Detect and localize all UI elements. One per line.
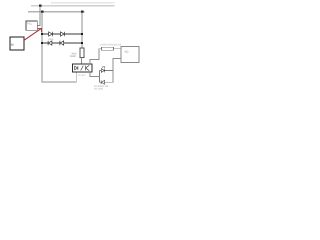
node row2 left (41, 42, 43, 44)
resistor R2 horizontal (102, 47, 114, 50)
box BQ right (121, 47, 139, 63)
LED pair loop wires (100, 71, 113, 83)
wire vertical bus x82 from rail L1 down to R1 (81, 12, 83, 48)
diode D1 row1 (49, 32, 53, 36)
node row1 right (81, 33, 83, 35)
node row2 right (81, 42, 83, 44)
wire opto top-right pin staircase to R2 (90, 49, 102, 64)
wire rail L3 top (51, 2, 115, 3)
wire rail L2 (31, 5, 115, 7)
connector BU box (10, 37, 24, 50)
diode D4 row2 points left (60, 41, 64, 45)
svg-text:PCL: PCL (27, 23, 33, 26)
node on rail L1 at x42 (41, 11, 44, 14)
wire opto bottom-right pin to LED pair (90, 72, 100, 77)
diode D2 row1 (61, 32, 65, 36)
LED HL1 points right with arrows (101, 66, 105, 72)
wire R1 bottom to opto (81, 58, 83, 64)
wire vertical from L2 node to filter (37, 6, 40, 25)
svg-text:D5M: D5M (48, 38, 53, 41)
wire box left-bottom to LED pair right (113, 59, 121, 83)
svg-text:BQ: BQ (125, 51, 129, 54)
svg-text:1 W5R OTNOWN D5: 1 W5R OTNOWN D5 (100, 43, 122, 46)
diode D6 points left (101, 80, 104, 84)
red annotation arrow (24, 28, 42, 40)
wire vertical bus x42 from rail L1 down and along bottom (42, 12, 76, 82)
opto LED symbol (75, 65, 90, 70)
wire diode row 2 (42, 42, 82, 44)
diode D3 row2 points left (48, 41, 52, 45)
svg-text:D1 4148: D1 4148 (94, 87, 103, 90)
resistor R1 vertical (80, 48, 84, 58)
svg-text:BU: BU (11, 44, 15, 47)
svg-text:PC 817: PC 817 (78, 74, 86, 77)
svg-text:300R1: 300R1 (70, 55, 77, 58)
node on rail L1 at x82 (81, 11, 83, 13)
node row1 left (41, 33, 43, 35)
wire R2 right to box (113, 48, 121, 50)
wire diode row 1 (42, 33, 82, 35)
filter box PCL (26, 21, 37, 30)
wire rail L1 (28, 11, 85, 13)
node on rail L2 (39, 5, 42, 8)
opto U1 box (73, 64, 93, 72)
